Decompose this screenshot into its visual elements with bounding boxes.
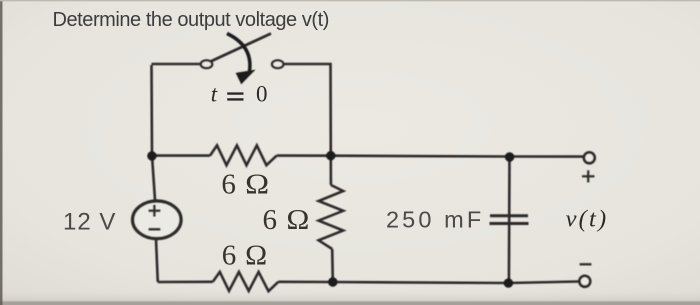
- wire: bottom bus right segment (node D to capacitor bottom node E): [333, 282, 509, 283]
- wire: bottom-left corner to bottom resistor: [158, 280, 213, 283]
- wire: capacitor bottom node E to output terminal bottom: [509, 282, 579, 284]
- switch right contact circle: [272, 60, 283, 68]
- svg-text:6: 6: [222, 240, 237, 272]
- switch left contact circle: [201, 60, 212, 68]
- label t = 0: [211, 82, 268, 107]
- label 6 ohm (bottom resistor): [222, 240, 267, 272]
- wire: capacitor node C to output terminal top: [510, 155, 584, 158]
- resistor 6ohm bottom (horizontal zigzag): [213, 272, 278, 291]
- left photo edge line: [0, 0, 3, 305]
- svg-text:Ω: Ω: [245, 240, 267, 272]
- capacitor 250mF top plate: [490, 214, 528, 217]
- svg-text:Ω: Ω: [245, 168, 269, 200]
- wire: voltage source bottom lead down to bottom-left corner: [156, 240, 158, 283]
- wire: top bus right segment (node B to capacitor node C): [331, 154, 510, 157]
- voltage source V1 (ellipse): [133, 201, 181, 239]
- node B junction dot (top middle): [326, 151, 335, 160]
- resistor 6ohm top (horizontal zigzag): [210, 145, 277, 165]
- svg-text:6: 6: [263, 204, 278, 236]
- output terminal top circle: [584, 152, 595, 163]
- svg-text:250 mF: 250 mF: [386, 206, 484, 232]
- wire: switch right contact to top-right corner and down to node: [285, 64, 331, 156]
- svg-text:6: 6: [221, 168, 236, 200]
- output polarity minus sign: [580, 263, 592, 265]
- wire: top bus middle segment (resistor to node B): [277, 154, 331, 157]
- output terminal bottom circle: [579, 276, 590, 287]
- source polarity plus sign: [149, 205, 161, 217]
- node C junction dot (capacitor top): [505, 152, 514, 161]
- wire: top-left corner horizontal to switch left contact: [152, 63, 201, 66]
- label 6 ohm (middle resistor): [263, 204, 310, 236]
- svg-text:v(t): v(t): [566, 206, 609, 233]
- node D junction dot (bottom middle): [328, 277, 337, 286]
- node A junction dot (top left): [147, 151, 156, 160]
- capacitor vertical wire: [508, 157, 511, 284]
- top photo edge line: [0, 0, 700, 1]
- wire: vertical branch top lead (node B down to resistor): [329, 156, 332, 185]
- label 6 ohm (top resistor): [221, 168, 269, 200]
- wire: top bus left segment (node A to resistor): [152, 154, 210, 157]
- svg-text:12 V: 12 V: [63, 209, 116, 236]
- svg-text:Ω: Ω: [286, 204, 309, 236]
- node E junction dot (capacitor bottom): [504, 278, 513, 287]
- resistor 6ohm middle (vertical zigzag): [319, 185, 344, 249]
- switch action arrow: [227, 34, 253, 83]
- capacitor 250mF bottom plate: [490, 222, 529, 225]
- bottom photo edge band: [0, 288, 700, 305]
- output polarity plus sign: [582, 170, 595, 182]
- svg-text:t: t: [211, 82, 218, 107]
- wire: bottom bus middle segment: [278, 280, 333, 283]
- switch blade: [211, 34, 272, 62]
- svg-text:Determine the output voltage v: Determine the output voltage v(t): [53, 9, 329, 31]
- svg-text:0: 0: [256, 82, 268, 107]
- wire: vertical branch bottom lead (resistor down to node D): [331, 249, 334, 282]
- source polarity minus sign: [149, 228, 161, 230]
- wire: left vertical upper (switch corner down to top node): [152, 65, 156, 200]
